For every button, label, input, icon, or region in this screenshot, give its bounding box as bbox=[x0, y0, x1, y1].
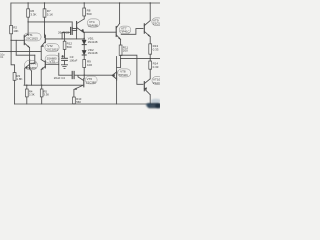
node input junction bbox=[10, 51, 11, 52]
label bubble VT10 bbox=[152, 77, 163, 85]
label bubble VT2 bbox=[45, 44, 59, 52]
wire VT2 collector bbox=[44, 22, 46, 34]
label VD2 bbox=[88, 48, 98, 55]
wire feedback line bbox=[24, 84, 83, 86]
resistor R11 bbox=[119, 45, 122, 56]
transistor VT10 bbox=[144, 79, 150, 95]
label R7 bbox=[47, 9, 53, 16]
label bubble VT1 bbox=[24, 33, 41, 41]
svg-text:10K: 10K bbox=[13, 29, 18, 33]
wire R13 bottom bbox=[149, 54, 151, 58]
label R6 bbox=[30, 9, 36, 16]
wire R6 top bbox=[27, 3, 29, 9]
svg-text:VT5: VT5 bbox=[49, 59, 55, 63]
wire divider tap vertical bbox=[15, 40, 17, 55]
node dot rail VT7 bbox=[119, 2, 120, 3]
wire VT7 emitter to R11 bbox=[120, 39, 122, 45]
resistor R9 bbox=[83, 60, 86, 68]
wire R8 top bbox=[83, 3, 85, 8]
wire VT6 emitter down bbox=[73, 89, 75, 97]
wire emitter bus bbox=[11, 51, 41, 53]
node dot fb-R5 bbox=[41, 85, 42, 86]
wire VT9 base tap bbox=[121, 29, 143, 35]
capacitor C2 bbox=[62, 27, 77, 39]
wire VT1 collector bbox=[27, 22, 29, 35]
resistor R4 bbox=[26, 89, 29, 97]
label VT6 bbox=[86, 77, 97, 84]
svg-text:0.33: 0.33 bbox=[153, 65, 159, 69]
transistor VT4 bbox=[77, 19, 85, 33]
wire C4 feed vertical bbox=[58, 53, 60, 75]
wire R4 top bbox=[26, 85, 28, 89]
wire R5 top bbox=[41, 85, 43, 89]
wire VT5 emitter down bbox=[40, 70, 42, 86]
wire R14 bottom to VT10 bbox=[149, 69, 151, 79]
node dot rail R7 bbox=[44, 2, 45, 3]
wire R12 bottom to C3 bbox=[64, 49, 66, 58]
ground bbox=[61, 65, 67, 69]
svg-text:200: 200 bbox=[123, 49, 128, 53]
label bubble VT6 bbox=[85, 76, 97, 84]
label R12 bbox=[67, 42, 73, 50]
label VT7 bbox=[120, 26, 129, 33]
label bubble VT5 bbox=[45, 55, 59, 63]
label R10 bbox=[76, 97, 82, 104]
wire output line bbox=[121, 58, 160, 60]
transistor VT6 bbox=[74, 75, 84, 90]
svg-text:C1: C1 bbox=[0, 56, 4, 59]
wire VT10 collector to ground rail bbox=[149, 95, 151, 104]
wire VT2 emitter down bbox=[40, 46, 42, 59]
svg-text:2SA19: 2SA19 bbox=[153, 81, 160, 85]
node dot rail R8 bbox=[84, 2, 85, 3]
svg-text:100: 100 bbox=[87, 63, 92, 67]
svg-text:2SC388: 2SC388 bbox=[86, 80, 97, 84]
label R11 bbox=[123, 45, 129, 52]
wire collector node line bbox=[28, 21, 72, 23]
svg-text:0.33: 0.33 bbox=[153, 48, 159, 52]
label VT1 bbox=[26, 33, 38, 41]
label VT5 bbox=[47, 56, 57, 63]
node dot R7 bbox=[44, 21, 45, 22]
wire VD2 to R9 bbox=[83, 55, 85, 60]
label VT9 bbox=[153, 18, 162, 25]
wire R10 bottom bbox=[73, 103, 75, 105]
node A base-rail junction bbox=[10, 40, 11, 41]
wire R14 top bbox=[149, 59, 151, 61]
wire VT2 collector slant join bbox=[44, 34, 46, 38]
svg-text:1N4148: 1N4148 bbox=[88, 51, 98, 55]
label VT2 bbox=[46, 44, 58, 51]
wire VT10 base tap bbox=[121, 55, 143, 84]
capacitor C3 bbox=[62, 54, 68, 65]
label VD1 bbox=[88, 37, 98, 44]
node dot fb-R4 bbox=[26, 85, 27, 86]
wire VT8 collector vertical bbox=[116, 57, 118, 72]
wire bottom ground rail bbox=[15, 103, 160, 105]
wire VT5 base bbox=[45, 63, 59, 65]
wire R7 bottom bbox=[44, 17, 46, 22]
wire VT4 base corner bbox=[72, 22, 76, 29]
svg-text:1.8K: 1.8K bbox=[16, 77, 22, 81]
watermark blob bbox=[146, 99, 162, 109]
wire VT1 base line bbox=[11, 39, 24, 41]
label R8 bbox=[87, 8, 92, 15]
wire VT1 emitter down bbox=[29, 48, 31, 52]
transistor VT7 bbox=[116, 24, 121, 40]
svg-text:+: + bbox=[62, 54, 64, 58]
wire VT8 collector jog bbox=[117, 59, 121, 68]
node dot VD1 top bbox=[84, 38, 85, 39]
svg-text:26uF C4: 26uF C4 bbox=[54, 76, 65, 80]
label VT4 bbox=[88, 20, 98, 27]
label VT10 bbox=[153, 78, 162, 85]
svg-text:2SA680: 2SA680 bbox=[26, 66, 36, 70]
resistor R14 bbox=[149, 61, 152, 69]
svg-text:5.1K: 5.1K bbox=[47, 13, 53, 17]
wire R11 bottom bbox=[120, 56, 122, 59]
resistor R13 bbox=[149, 44, 152, 54]
svg-text:26pF C2: 26pF C2 bbox=[58, 30, 69, 34]
transistor VT9 bbox=[144, 21, 150, 37]
resistor R10 bbox=[73, 97, 76, 104]
label bubble VT4 bbox=[87, 19, 100, 27]
svg-text:2SC52: 2SC52 bbox=[153, 22, 160, 26]
label bubble VT7 bbox=[119, 26, 131, 34]
label bubble VT3 bbox=[25, 60, 38, 70]
label C3 bbox=[69, 55, 77, 63]
transistor VT5 bbox=[41, 60, 45, 70]
label R3 bbox=[16, 74, 22, 81]
node dot rail R6 bbox=[27, 2, 28, 3]
wire bias node to VT8 base bbox=[84, 74, 112, 76]
svg-text:2SC1815: 2SC1815 bbox=[26, 37, 38, 41]
node dot R6 bbox=[27, 21, 28, 22]
label R4 bbox=[29, 90, 35, 97]
transistor VT8 bbox=[112, 71, 117, 80]
label R13 bbox=[153, 44, 159, 51]
wire left rail to bottom corner bbox=[14, 80, 16, 104]
wire VT2 base to diode node bbox=[45, 38, 84, 40]
node dot output R13 bbox=[150, 58, 151, 59]
wire top supply rail bbox=[11, 2, 160, 4]
wire VT3 collector down bbox=[31, 71, 33, 85]
svg-text:560: 560 bbox=[67, 45, 72, 49]
svg-text:1N4148: 1N4148 bbox=[88, 40, 98, 44]
wire VT4 node to VT7 base bbox=[84, 31, 116, 33]
transistor VT1 bbox=[24, 34, 29, 48]
wire VT9 collector to rail bbox=[149, 3, 151, 21]
svg-text:100uF: 100uF bbox=[69, 58, 77, 62]
svg-text:3.3K: 3.3K bbox=[29, 93, 35, 97]
svg-text:3.3K: 3.3K bbox=[30, 13, 36, 17]
label bubble VT8 bbox=[118, 69, 131, 77]
svg-text:3.3K: 3.3K bbox=[43, 93, 49, 97]
svg-text:2SA680: 2SA680 bbox=[88, 23, 98, 27]
transistor VT2 bbox=[41, 34, 45, 47]
label bubble VT9 bbox=[152, 18, 163, 26]
label R5 bbox=[43, 90, 49, 97]
svg-text:VT3: VT3 bbox=[31, 62, 37, 66]
wire VT8 emitter to ground rail bbox=[116, 80, 118, 104]
wire R9 bottom bbox=[83, 68, 85, 76]
resistor R3 bbox=[13, 73, 16, 81]
wire VT3 base feed bbox=[30, 55, 34, 63]
wire R5 bottom bbox=[41, 97, 43, 104]
wire R7 top bbox=[44, 3, 46, 9]
resistor R2 bbox=[10, 26, 13, 34]
wire VT4 collector to VD1 bbox=[83, 33, 85, 40]
wire input line bbox=[0, 51, 11, 53]
wire bias jog line bbox=[16, 54, 35, 56]
wire VT9 emitter to R13 bbox=[149, 37, 151, 44]
resistor R5 bbox=[40, 89, 43, 97]
diode VD1 bbox=[82, 40, 86, 45]
label VT3 bbox=[26, 62, 36, 70]
transistor VT3 bbox=[25, 52, 32, 71]
resistor R7 bbox=[43, 9, 46, 17]
resistor R6 bbox=[27, 9, 30, 17]
resistor R12 bbox=[63, 41, 66, 49]
wire VD1-VD2 bbox=[83, 45, 85, 51]
svg-text:560: 560 bbox=[87, 12, 92, 16]
wire R12 top bbox=[64, 32, 66, 41]
label R2 bbox=[13, 26, 18, 33]
node dot R9-C4 bbox=[84, 75, 85, 76]
label VT8 bbox=[119, 70, 128, 78]
wire left rail below R2 bbox=[11, 34, 15, 73]
wire VT3 emitter down bbox=[24, 68, 26, 85]
resistor R8 bbox=[83, 8, 86, 16]
wire left rail upper bbox=[10, 3, 12, 26]
label R9 bbox=[87, 60, 92, 67]
svg-text:TIP42C: TIP42C bbox=[119, 73, 128, 77]
label input C1 bbox=[0, 53, 5, 59]
diode VD2 bbox=[82, 50, 86, 55]
capacitor C4 bbox=[59, 71, 84, 78]
label R14 bbox=[153, 61, 159, 68]
svg-text:2SC1815: 2SC1815 bbox=[46, 47, 58, 51]
svg-text:TIP41C: TIP41C bbox=[120, 30, 129, 34]
wire R6 bottom to node bbox=[27, 17, 29, 22]
wire R8 bottom to VT4 bbox=[83, 16, 85, 19]
svg-text:560: 560 bbox=[76, 100, 81, 104]
wire VT7 collector to rail bbox=[119, 3, 121, 24]
node dot rail VT9 bbox=[150, 2, 151, 3]
wire R4 bottom bbox=[26, 97, 28, 104]
